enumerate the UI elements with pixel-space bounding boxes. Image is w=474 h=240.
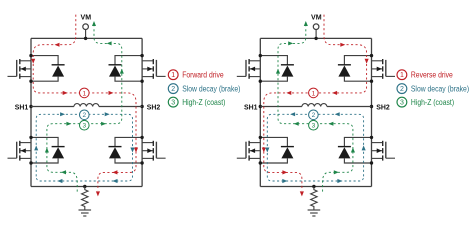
svg-text:Reverse drive: Reverse drive — [411, 70, 453, 80]
ground (right figure) — [308, 210, 321, 216]
node: Q1 drain dot (left figure) — [29, 54, 32, 57]
legend item 2 (left figure) — [168, 84, 240, 94]
svg-text:1: 1 — [312, 90, 316, 97]
transistor Q3 low-side left (left figure) (NMOS with body diode) — [8, 137, 65, 163]
node: Q3 source dot (right figure) — [259, 161, 262, 164]
transistor Q3 low-side left (right figure) (NMOS with body diode) — [237, 137, 294, 163]
svg-text:VM: VM — [311, 15, 322, 22]
wire: right rail (left figure) — [141, 38, 143, 186]
wire: motor to SH2 (right figure) — [327, 106, 372, 108]
wire: SH1 to motor (right figure) — [260, 106, 302, 108]
node: VM junction dot (right figure) — [314, 37, 317, 40]
wire: left rail (right figure) — [259, 38, 261, 186]
svg-text:1: 1 — [171, 72, 175, 79]
svg-text:1: 1 — [400, 72, 404, 79]
wire: bottom rail (left figure) — [31, 186, 142, 188]
node: Q3 drain dot (right figure) — [259, 136, 262, 139]
current path 3 high-Z coast (reverse) green dashed route — [276, 21, 355, 192]
node: Q1 source dot (left figure) — [29, 80, 32, 83]
current path 1 (Forward drive) red dashed route — [31, 15, 138, 197]
node: Q2 drain dot (left figure) — [140, 54, 143, 57]
wire: top rail (left figure) — [31, 37, 142, 39]
transistor Q4 low-side right (left figure) (NMOS with body diode) — [109, 137, 166, 163]
svg-text:Forward drive: Forward drive — [182, 70, 224, 80]
path label circle 1 (Reverse drive) — [309, 88, 319, 98]
node SH2 (left figure) — [140, 102, 160, 111]
wire: motor to SH2 (left figure) — [99, 106, 142, 108]
wire: right rail (right figure) — [371, 38, 373, 186]
node: Q4 drain dot (right figure) — [370, 136, 373, 139]
node SH1 (left figure) — [15, 102, 33, 111]
svg-text:SH2: SH2 — [376, 102, 390, 111]
transistor Q2 high-side right (right figure) (NMOS with body diode) — [338, 56, 395, 82]
path label circle 2 (reverse) — [309, 110, 319, 120]
node: Q2 source dot (left figure) — [140, 80, 143, 83]
svg-text:1: 1 — [82, 90, 86, 97]
node: Q4 source dot (left figure) — [140, 161, 143, 164]
node: sense resistor junction dot (left figure) — [83, 185, 86, 188]
node: Q4 source dot (right figure) — [370, 161, 373, 164]
current path 1 (Reverse drive) red dashed route — [262, 15, 369, 197]
current path 3 high-Z coast (forward) green dashed route — [45, 21, 124, 192]
svg-text:High-Z (coast): High-Z (coast) — [182, 97, 225, 107]
path label circle 3 (forward) — [80, 120, 90, 130]
node: Q2 source dot (right figure) — [370, 80, 373, 83]
transistor Q1 high-side left (right figure) (NMOS with body diode) — [237, 56, 294, 82]
legend item 3 (left figure) — [168, 97, 225, 107]
node: Q3 drain dot (left figure) — [29, 136, 32, 139]
svg-text:3: 3 — [82, 123, 86, 130]
node: Q4 drain dot (left figure) — [140, 136, 143, 139]
svg-text:SH1: SH1 — [244, 102, 258, 111]
legend item 2 (right figure) — [397, 84, 469, 94]
svg-text:2: 2 — [400, 86, 404, 93]
node SH2 (right figure) — [370, 102, 390, 111]
VM supply terminal (left figure) — [81, 15, 92, 39]
wire: bottom rail (right figure) — [260, 186, 371, 188]
motor winding inductor (left figure) — [74, 104, 99, 107]
transistor Q1 high-side left (left figure) (NMOS with body diode) — [8, 56, 65, 82]
ground (left figure) — [79, 210, 92, 216]
svg-text:VM: VM — [81, 15, 92, 22]
svg-text:High-Z (coast): High-Z (coast) — [411, 97, 454, 107]
path label circle 1 (Forward drive) — [80, 88, 90, 98]
node: Q2 drain dot (right figure) — [370, 54, 373, 57]
wire: SH1 to motor (left figure) — [31, 106, 74, 108]
VM supply terminal (right figure) — [311, 15, 322, 39]
node: VM junction dot (left figure) — [84, 37, 87, 40]
path label circle 2 (forward) — [80, 110, 90, 120]
sense resistor (right figure) — [311, 187, 317, 210]
node SH1 (right figure) — [244, 102, 262, 111]
svg-text:3: 3 — [312, 123, 316, 130]
legend item 1 (right figure) — [397, 70, 453, 80]
transistor Q4 low-side right (right figure) (NMOS with body diode) — [338, 137, 395, 163]
svg-text:SH2: SH2 — [147, 102, 161, 111]
legend item 3 (right figure) — [397, 97, 454, 107]
svg-text:3: 3 — [171, 100, 175, 107]
motor winding inductor (right figure) — [302, 104, 327, 107]
node: sense resistor junction dot (right figure) — [312, 185, 315, 188]
transistor Q2 high-side right (left figure) (NMOS with body diode) — [109, 56, 166, 82]
legend item 1 (left figure) — [168, 70, 224, 80]
svg-text:SH1: SH1 — [15, 102, 29, 111]
svg-text:Slow decay (brake): Slow decay (brake) — [411, 84, 469, 94]
node: Q1 drain dot (right figure) — [259, 54, 262, 57]
path label circle 3 (reverse) — [309, 120, 319, 130]
sense resistor (left figure) — [82, 187, 88, 210]
node: Q1 source dot (right figure) — [259, 80, 262, 83]
current path 2 slow decay loop (forward) blue dashed route — [34, 112, 134, 183]
svg-text:Slow decay (brake): Slow decay (brake) — [182, 84, 240, 94]
current path 2 slow decay loop (reverse) blue dashed route — [265, 112, 366, 183]
wire: top rail (right figure) — [260, 37, 371, 39]
svg-text:2: 2 — [312, 112, 316, 119]
wire: left rail (left figure) — [30, 38, 32, 186]
svg-text:3: 3 — [400, 100, 404, 107]
node: Q3 source dot (left figure) — [29, 161, 32, 164]
svg-text:2: 2 — [171, 86, 175, 93]
svg-text:2: 2 — [82, 112, 86, 119]
